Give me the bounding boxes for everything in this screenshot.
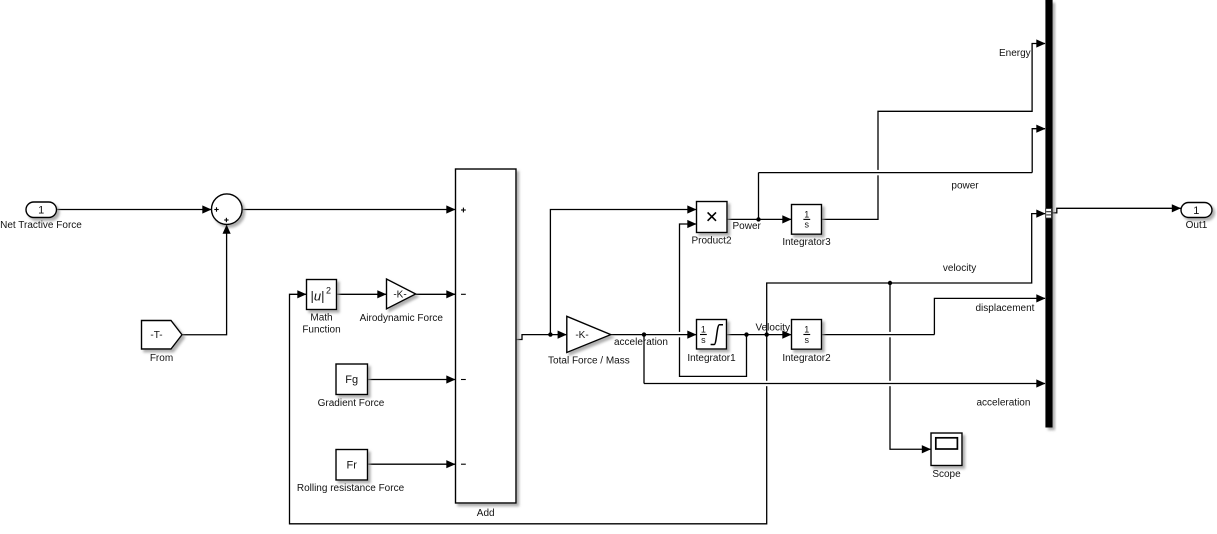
inport 1 Net Tractive Force [26, 202, 57, 218]
svg-text:Fr: Fr [347, 460, 358, 472]
svg-text:-T-: -T- [150, 330, 162, 341]
Mux output badge [1046, 209, 1052, 219]
arrowhead into Integrator1 [687, 331, 696, 339]
wire Fr to Add port4 [368, 463, 456, 465]
wire acceleration branch down [643, 335, 645, 384]
arrowhead into bus displacement [1036, 294, 1045, 302]
svg-text:velocity: velocity [943, 263, 976, 274]
gain Total Force / Mass [567, 316, 611, 352]
svg-text:Out1: Out1 [1186, 220, 1208, 231]
port sign - [461, 379, 466, 381]
arrowhead into Sum left [202, 205, 211, 213]
svg-text:Product2: Product2 [691, 236, 731, 247]
wire Integrator1 output to Integrator2 [727, 334, 792, 336]
wire node to Product2 input1 [550, 210, 696, 335]
arrowhead into bus velocity [1036, 210, 1045, 218]
junction node Power [756, 217, 760, 221]
Integrator3 block [792, 205, 822, 235]
arrowhead into Out1 [1172, 204, 1181, 212]
svg-text:-K-: -K- [575, 330, 588, 341]
wire velocity to bus [767, 214, 1045, 335]
svg-text:From: From [150, 353, 173, 364]
svg-text:1: 1 [804, 325, 809, 335]
wire Total Force / Mass to Integrator1 [611, 334, 696, 336]
wire Airodynamic gain to Add port2 [416, 293, 455, 295]
svg-text:s: s [805, 220, 810, 230]
wire power riser [758, 173, 760, 220]
svg-text:1: 1 [38, 205, 44, 217]
arrowhead into Add port1 [446, 205, 455, 213]
arrowhead into Product2 input2 [687, 220, 696, 228]
svg-text:1: 1 [1193, 205, 1199, 217]
port sign - [461, 463, 466, 465]
wire displacement riser to bus [934, 298, 1045, 334]
wire power corner to bus [1032, 129, 1045, 173]
arrowhead into bus acceleration [1036, 379, 1045, 387]
wire power horizontal [759, 172, 1033, 174]
wire Math Function to Airodynamic gain [337, 293, 387, 295]
svg-text:Add: Add [477, 508, 495, 519]
arrowhead into bus Energy [1036, 39, 1045, 47]
svg-text:Total Force / Mass: Total Force / Mass [548, 356, 630, 367]
wire Mux output to Out1 [1053, 208, 1181, 213]
svg-text:Net Tractive Force: Net Tractive Force [0, 220, 82, 231]
gain Airodynamic Force [387, 279, 416, 309]
arrowhead into bus power [1036, 125, 1045, 133]
junction node velocity/scope [888, 281, 892, 285]
arrowhead into Product2 input1 [687, 205, 696, 213]
svg-text:1: 1 [804, 210, 809, 220]
From block -T- [142, 321, 183, 350]
Mux bus bar [1045, 0, 1052, 428]
Add block [456, 169, 517, 503]
wire From to Sum bottom [182, 226, 227, 335]
wire Sum to Add port1 [242, 209, 455, 211]
svg-text:acceleration: acceleration [977, 398, 1031, 409]
Integrator1 block [697, 320, 727, 350]
wire Integrator2 output (displacement) [822, 334, 935, 336]
arrowhead into Math Function [297, 290, 306, 298]
svg-text:power: power [951, 181, 979, 192]
Fr block Rolling resistance Force [336, 450, 368, 481]
svg-text:Integrator2: Integrator2 [782, 353, 831, 364]
svg-text:Energy: Energy [999, 48, 1031, 59]
svg-text:Math: Math [310, 313, 332, 324]
svg-text:Rolling resistance Force: Rolling resistance Force [297, 483, 405, 494]
svg-text:Function: Function [302, 325, 340, 336]
svg-text:Integrator1: Integrator1 [687, 353, 736, 364]
saturation integral symbol [711, 325, 723, 345]
outport Out1 [1181, 203, 1212, 218]
arrowhead into Add port2 [446, 290, 455, 298]
svg-text:displacement: displacement [976, 303, 1035, 314]
svg-text:1: 1 [701, 325, 706, 335]
junction node Integrator1 output [744, 332, 748, 336]
svg-text:Power: Power [733, 221, 762, 232]
Math Function block |u|^2 [307, 280, 337, 310]
svg-text:2: 2 [326, 286, 331, 296]
port sign + [461, 209, 466, 211]
arrowhead into Airodynamic gain [377, 290, 386, 298]
Product2 block [697, 202, 728, 233]
junction node at Add output [548, 332, 552, 336]
wire velocity feedback (down, bottom, up to Math Function) [290, 294, 767, 524]
svg-text:Integrator3: Integrator3 [782, 237, 831, 248]
arrowhead into Integrator2 [782, 331, 791, 339]
wire In1 to Sum [57, 209, 212, 211]
svg-text:Airodynamic Force: Airodynamic Force [360, 313, 444, 324]
wire Add output to Total Force / Mass gain [516, 335, 566, 340]
svg-text:|u|: |u| [311, 289, 325, 304]
junction node Velocity [765, 332, 769, 336]
wire Fg to Add port3 [368, 379, 456, 381]
Fg block Gradient Force [336, 364, 368, 395]
arrowhead into Sum bottom [223, 225, 231, 234]
svg-text:acceleration: acceleration [614, 337, 668, 348]
arrowhead into Total Force / Mass gain [558, 331, 567, 339]
svg-text:s: s [805, 335, 810, 345]
svg-text:s: s [701, 335, 706, 345]
sum block [212, 194, 243, 225]
svg-text:Fg: Fg [345, 374, 358, 386]
port sign - [461, 293, 466, 295]
arrowhead into Integrator3 [782, 215, 791, 223]
arrowhead into Add port3 [446, 375, 455, 383]
svg-text:Scope: Scope [932, 469, 961, 480]
svg-text:-K-: -K- [393, 290, 406, 301]
arrowhead into Add port4 [446, 460, 455, 468]
wire velocity branch to Scope [890, 283, 931, 449]
crossing gaps [678, 170, 891, 386]
wire acceleration to bus [644, 383, 1045, 385]
wire Energy: Integrator3 to bus [822, 44, 1046, 220]
Scope block [931, 433, 962, 466]
svg-text:Velocity: Velocity [756, 323, 790, 334]
svg-text:Gradient Force: Gradient Force [318, 398, 385, 409]
Integrator2 block [792, 320, 822, 350]
arrowhead into Scope [922, 445, 931, 453]
wire velocity feedback to Product2 input2 [680, 224, 747, 376]
junction node acceleration [642, 332, 646, 336]
wire Product2 output to Integrator3 [727, 218, 791, 220]
